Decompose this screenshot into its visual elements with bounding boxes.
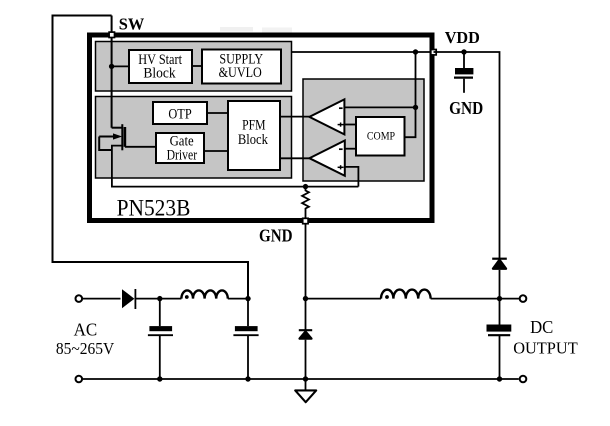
wire Gate Driver to PFM [204,150,228,152]
wire bottom rail [83,378,519,380]
wire VDD junction down to COMP [405,52,416,137]
capacitor C1 [148,299,173,379]
node: VDD cap junction [461,49,466,54]
node: C4 bottom [497,376,502,381]
box Gate Driver [156,133,204,163]
node: SW junction to HV Start [109,64,114,69]
node: freewheel anode rail [303,376,308,381]
wire L1 to C2 node [228,298,248,300]
wire OTP to PFM [207,112,228,114]
capacitor C2 [233,299,258,379]
terminal DC- [520,376,527,383]
svg-text:Driver: Driver [167,147,198,163]
terminal DC+ [520,295,527,302]
inductor L1 input filter [181,290,227,298]
ghost smudge artifact [220,27,253,32]
node: C1 bottom [157,376,162,381]
svg-text:AC: AC [74,320,98,340]
box HV Start Block [129,50,192,83]
internal gray region: HV start / supply [96,42,292,92]
svg-text:DC: DC [530,317,553,337]
pin VDD [431,50,436,55]
svg-text:VDD: VDD [445,28,480,47]
svg-text:Block: Block [238,131,268,148]
node: C1 tap [157,296,162,301]
internal gray region: comparators [303,79,424,181]
wire L2 to DC+ [431,298,520,300]
diode D1 input rectifier [122,289,135,309]
resistor R1 current sense [302,187,309,219]
wire lower comparator minus input to COMP [345,148,356,150]
wire Q1 source to sense node [112,146,306,187]
svg-text:&UVLO: &UVLO [219,64,262,81]
inductor L2 output [381,290,431,299]
wire Q1 gate to Gate Driver [125,146,156,148]
op-amp comparator upper [309,99,344,134]
wire SW pin to drain of Q1 [111,16,113,128]
node: VDD internal junction [413,49,418,54]
wire lower comparator plus input to sense node [345,167,359,187]
svg-text:Block: Block [143,65,176,82]
wire GND pin down to drain node of freewheel [305,225,307,299]
wire upper comparator plus input to COMP [344,124,356,126]
svg-text:85~265V: 85~265V [56,339,114,358]
svg-text:GND: GND [449,98,483,118]
wire D1 to L1 [136,298,181,300]
wire sense node to comparator branch [306,186,359,188]
diode D3 output rectifier [492,259,507,299]
pin GND [303,218,308,223]
wire supply region to VDD pin [292,51,434,53]
wire HV Start to SUPPLY [192,65,202,67]
wire PFM to lower comparator output [280,157,309,159]
wire VDD pin to output diode [434,52,500,259]
node: C2 tap / SW return [245,296,250,301]
op-amp comparator lower [309,141,344,176]
ground [295,379,316,402]
wire upper comparator minus input [344,106,415,108]
wire external SW loop to input node [53,16,249,299]
node: output top [497,296,502,301]
internal gray region: control logic [96,97,292,179]
chip outline U1 PN523B [90,35,433,221]
terminal AC top [76,295,83,302]
svg-text:OUTPUT: OUTPUT [513,338,578,357]
svg-text:COMP: COMP [367,129,395,143]
transistor Q1 power MOSFET [99,124,125,150]
capacitor C3 VDD bypass [454,52,473,93]
svg-text:OTP: OTP [168,105,191,122]
node: sense resistor top [303,184,308,189]
svg-text:GND: GND [259,226,293,246]
box SUPPLY &UVLO [202,50,281,84]
node: switch output node [303,296,308,301]
diode D2 freewheeling [299,299,312,379]
box OTP [153,102,207,124]
pin SW [109,32,114,37]
node: C2 bottom [245,376,250,381]
box PFM Block [228,101,280,170]
terminal AC bottom [76,376,83,383]
wire AC top to D1 [83,298,121,300]
wire PFM to upper comparator output [280,116,309,118]
svg-text:SW: SW [119,15,145,34]
box COMP [356,117,405,156]
capacitor C4 output [487,299,512,379]
wire SW node to HV Start Block [112,65,129,67]
node: comparator minus junction [413,105,418,110]
svg-text:PN523B: PN523B [117,195,191,221]
wire switch node to L2 [306,298,382,300]
